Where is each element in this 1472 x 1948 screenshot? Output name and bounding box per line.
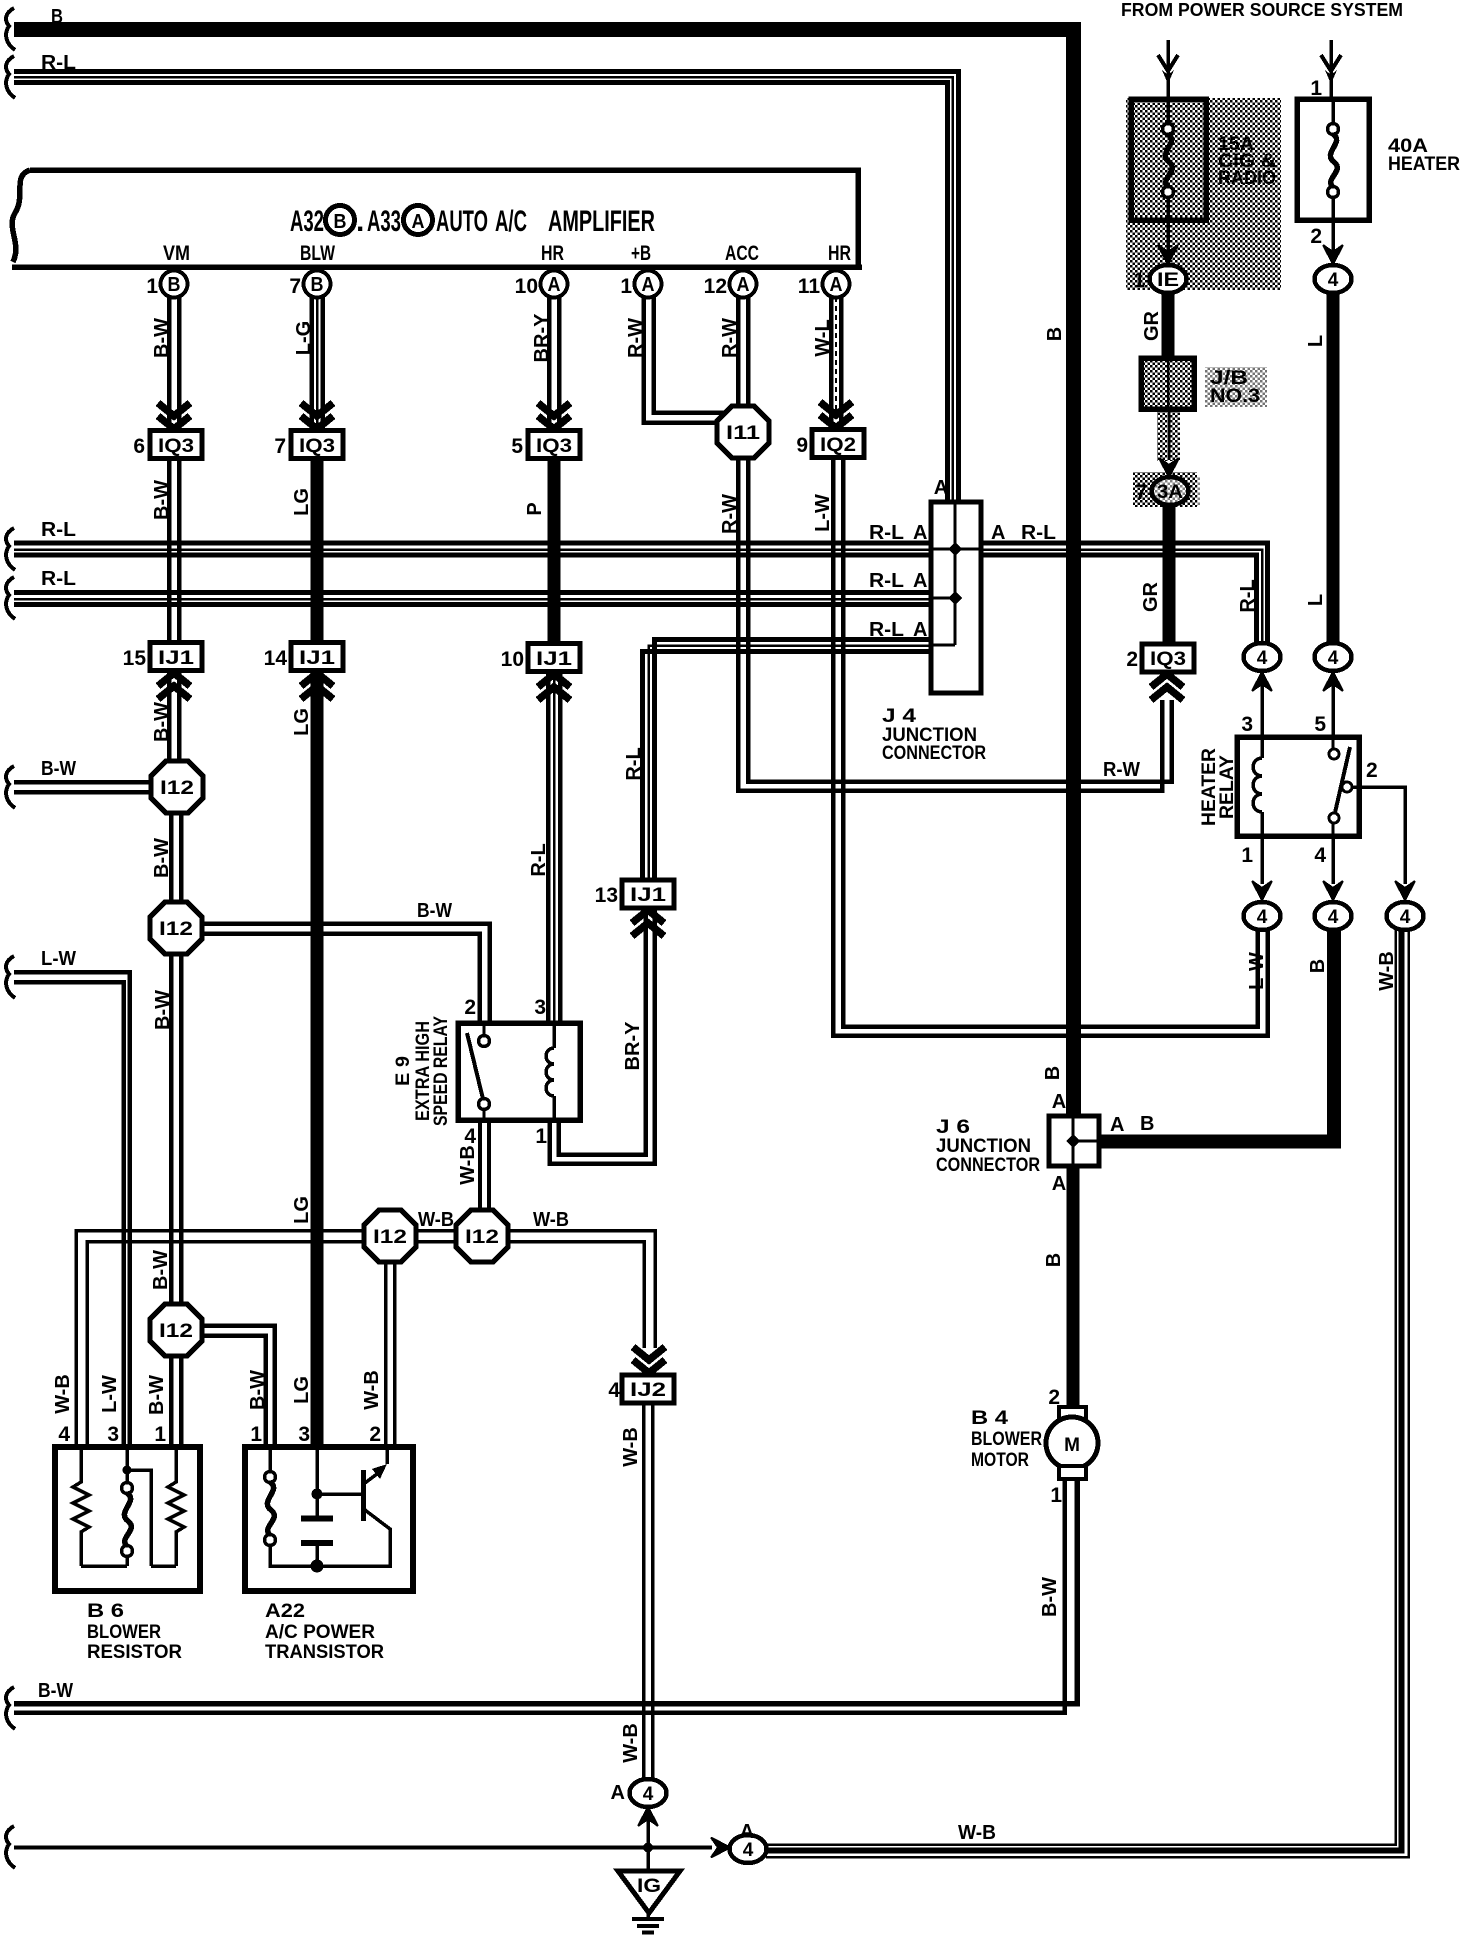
oval connector 4 (heater fuse) xyxy=(1315,265,1352,293)
junction dot at IG tap xyxy=(643,1843,653,1853)
svg-text:1: 1 xyxy=(1241,844,1253,867)
HEATER RELAY box xyxy=(1237,737,1359,836)
connector 6 IQ3 xyxy=(133,431,202,459)
svg-text:3: 3 xyxy=(107,1423,119,1446)
octagon junction I12 (third, on B-W column) xyxy=(150,1304,202,1356)
svg-text:IJ1: IJ1 xyxy=(299,648,336,669)
connector 2 IQ3 xyxy=(1126,644,1194,672)
svg-text:R-L: R-L xyxy=(528,843,550,876)
svg-text:A: A xyxy=(913,522,927,544)
label J 4 JUNCTION CONNECTOR xyxy=(882,705,986,764)
B6 bypass link from pin3 node xyxy=(127,1470,151,1566)
junction block J/B No.3 box xyxy=(1141,358,1194,409)
svg-text:LG: LG xyxy=(291,708,313,736)
J6 junction dot xyxy=(1066,1134,1080,1148)
connector 7 IQ3 xyxy=(274,431,343,459)
label 40A HEATER xyxy=(1388,135,1460,175)
svg-text:4: 4 xyxy=(1328,648,1339,669)
svg-text:B: B xyxy=(334,211,347,233)
svg-text:4: 4 xyxy=(1314,844,1326,867)
svg-text:B: B xyxy=(1044,327,1066,341)
B6 resistor under pin 1 xyxy=(168,1447,184,1566)
svg-text:14: 14 xyxy=(264,647,288,670)
arrow up into 15 IJ1 xyxy=(158,673,190,699)
svg-text:RELAY: RELAY xyxy=(1216,755,1238,819)
brace at left of L-W entry xyxy=(6,956,15,998)
octagon junction I12 (row y1236 left) xyxy=(364,1210,416,1262)
svg-text:A: A xyxy=(740,1821,754,1843)
power feed arrow into 40A heater fuse xyxy=(1321,40,1341,99)
wire B-W from amp pin 1(VM) down to connector 6 IQ3 xyxy=(169,297,179,430)
svg-text:4: 4 xyxy=(743,1840,754,1861)
svg-text:TRANSISTOR: TRANSISTOR xyxy=(265,1641,384,1663)
wire W-B from 4 IJ2 down to bottom oval A 4 xyxy=(644,1403,653,1779)
connector 13 IJ1 xyxy=(595,880,674,908)
octagon junction I12 (first) xyxy=(151,761,203,813)
svg-text:L-W: L-W xyxy=(1246,952,1268,990)
power feed arrow into CIG fuse xyxy=(1158,40,1178,99)
svg-text:IJ1: IJ1 xyxy=(536,649,573,670)
svg-text:B: B xyxy=(1043,1253,1065,1267)
arrow down into heater oval 4 xyxy=(1323,245,1343,264)
svg-text:A: A xyxy=(830,274,843,296)
wire relay pin 4 down xyxy=(1331,836,1335,884)
blower resistor B6 box xyxy=(55,1447,200,1591)
wire R-L row 1 from left brace to J4 xyxy=(14,543,931,555)
arrow up from relay pin3 into oval xyxy=(1252,672,1272,691)
junction connector J6 box xyxy=(1049,1116,1099,1166)
svg-text:1: 1 xyxy=(620,275,632,298)
oval connector 4 (relay pin 2 bottom) xyxy=(1387,902,1424,930)
svg-text:BLW: BLW xyxy=(300,242,335,265)
svg-text:HEATER: HEATER xyxy=(1388,153,1460,175)
svg-text:7: 7 xyxy=(274,435,286,458)
B6 resistor under pin 4 xyxy=(73,1447,89,1566)
bottom single wire from left brace to oval A 4 (right) xyxy=(14,1846,712,1850)
svg-text:R-W: R-W xyxy=(1103,759,1140,781)
E9 switch blade xyxy=(467,1033,483,1099)
svg-text:I11: I11 xyxy=(726,423,761,444)
svg-text:L: L xyxy=(1305,594,1327,606)
wire B-W from second I12 down to third I12 xyxy=(171,954,181,1305)
svg-text:IQ3: IQ3 xyxy=(1150,649,1186,670)
svg-text:4: 4 xyxy=(1328,270,1339,291)
svg-text:R-L: R-L xyxy=(41,52,76,74)
oval connector 4 (relay pin 5 top) xyxy=(1315,643,1352,671)
svg-text:A32: A32 xyxy=(290,205,324,238)
svg-text:10: 10 xyxy=(515,275,538,298)
svg-text:A: A xyxy=(642,274,655,296)
arrow down into 7 IQ3 xyxy=(301,403,333,429)
svg-text:.: . xyxy=(356,205,364,238)
arrow up into 13 IJ1 from below xyxy=(632,910,664,936)
label 15A CIG & RADIO xyxy=(1218,133,1276,189)
svg-text:1: 1 xyxy=(250,1423,262,1446)
svg-text:IJ2: IJ2 xyxy=(630,1380,666,1401)
svg-text:4: 4 xyxy=(643,1784,654,1805)
arrow up into bottom oval A 4 xyxy=(638,1807,658,1826)
wire B-W from 6 IQ3 down to 15 IJ1 xyxy=(169,458,179,642)
svg-text:3: 3 xyxy=(298,1423,310,1446)
svg-text:A: A xyxy=(611,1782,625,1804)
svg-text:6: 6 xyxy=(133,435,145,458)
wire LG solid from 7 IQ3 down to 14 IJ1 xyxy=(311,458,324,642)
svg-text:ACC: ACC xyxy=(725,242,759,265)
svg-text:A: A xyxy=(1052,1173,1066,1195)
wire W-B from E9 pin 4 down to octagon I12 (x482) xyxy=(480,1120,489,1211)
wire R-L row 2 from left brace to J4 xyxy=(14,593,931,605)
svg-text:W-B: W-B xyxy=(958,1822,996,1844)
octagon junction I12 (second) xyxy=(150,902,202,954)
brace at left of R-L row 1 xyxy=(6,528,15,570)
svg-text:1: 1 xyxy=(1050,1484,1062,1507)
svg-text:B-W: B-W xyxy=(151,480,173,520)
heater relay coil xyxy=(1253,737,1262,836)
shaded wire from J/B No.3 down to 7 3A xyxy=(1157,409,1180,461)
E9 switch internal stubs xyxy=(483,1023,486,1120)
svg-text:B-W: B-W xyxy=(38,1680,73,1702)
arrow down into 7 3A xyxy=(1159,458,1179,477)
arrow down into 4 IJ2 xyxy=(633,1347,665,1373)
J4 internal row stubs xyxy=(931,549,981,645)
svg-text:W-B: W-B xyxy=(620,1723,642,1763)
wire GR solid from 7 3A down to 2 IQ3 xyxy=(1163,505,1176,644)
J4 junction dot row2 xyxy=(948,591,962,605)
wire B-W from second I12 right then down to E9 relay pin 2 xyxy=(202,924,490,1024)
svg-text:GR: GR xyxy=(1140,581,1162,612)
svg-text:GR: GR xyxy=(1141,310,1163,341)
svg-text:B: B xyxy=(311,274,324,296)
svg-text:R-L: R-L xyxy=(1237,579,1259,612)
wire W-B link between the two I12 octagons xyxy=(416,1231,456,1242)
E9 switch contact bottom circle xyxy=(479,1099,490,1110)
svg-text:BLOWER: BLOWER xyxy=(87,1621,161,1643)
svg-text:HR: HR xyxy=(828,242,851,265)
svg-text:I12: I12 xyxy=(159,919,193,940)
svg-text:B-W: B-W xyxy=(41,758,76,780)
svg-text:B: B xyxy=(168,274,181,296)
arrow down into pin4 oval xyxy=(1323,881,1343,900)
oval connector 4 (relay pin 4 bottom) xyxy=(1315,902,1352,930)
wire B: main battery feed, top horizontal then down right side to J6 xyxy=(14,30,1074,1117)
svg-text:W-B: W-B xyxy=(52,1374,74,1414)
arrow down into 1 IE xyxy=(1158,245,1178,264)
wire W-L from amp pin 11(HR) down to connector 9 IQ2 (dashed core) xyxy=(831,297,841,428)
svg-text:IE: IE xyxy=(1157,270,1179,291)
svg-text:R-W: R-W xyxy=(719,494,741,534)
A32/A33 AUTO A/C AMPLIFIER box xyxy=(12,170,862,267)
svg-text:1: 1 xyxy=(146,275,158,298)
svg-text:A: A xyxy=(548,274,561,296)
wire L solid from oval down to oval 4 at relay pin 5 xyxy=(1327,293,1340,643)
pin 1 circle B (VM) xyxy=(146,271,187,299)
svg-text:I12: I12 xyxy=(373,1227,407,1248)
brace at left of R-L row 2 xyxy=(6,577,15,619)
wire relay pin 3 xyxy=(1260,676,1264,737)
svg-text:W-B: W-B xyxy=(361,1370,383,1410)
svg-text:5: 5 xyxy=(511,435,523,458)
wire B-W bottom horizontal from left brace to blower motor pin 1 xyxy=(14,1481,1077,1713)
wire B solid from pin4 oval down then left into J6 xyxy=(1099,930,1334,1142)
connector 14 IJ1 xyxy=(264,643,343,671)
wire R-L: second horizontal from left, turns down at x955 into J4 pin A xyxy=(14,72,959,503)
svg-text:4: 4 xyxy=(58,1423,70,1446)
wire W-B from pin2 oval down then left along bottom to oval A 4 xyxy=(766,930,1409,1857)
blower motor B4 xyxy=(1046,1407,1098,1479)
svg-text:A: A xyxy=(737,274,750,296)
svg-text:B: B xyxy=(1140,1113,1154,1135)
A22 base node and capacitor xyxy=(301,1447,361,1573)
octagon junction I11 xyxy=(717,406,769,458)
wire B-W entering from left brace into first I12 xyxy=(14,782,151,792)
svg-text:B: B xyxy=(1307,959,1329,973)
halftone patch behind 7 3A oval xyxy=(1133,472,1197,507)
J4 junction dot row1 xyxy=(948,542,962,556)
label B 6 BLOWER RESISTOR xyxy=(87,1600,182,1663)
oval connector 4 (relay pin 1 bottom) xyxy=(1244,902,1281,930)
svg-text:3: 3 xyxy=(1241,713,1253,736)
svg-text:B-W: B-W xyxy=(150,1250,172,1290)
wire B-W from 15 IJ1 down to octagon I12 (first) xyxy=(169,673,179,762)
svg-text:A22: A22 xyxy=(265,1600,305,1622)
svg-text:RESISTOR: RESISTOR xyxy=(87,1641,182,1663)
A22 thermal element under pin 1 xyxy=(265,1447,318,1566)
svg-text:7: 7 xyxy=(289,275,301,298)
wire R-L row3 from 13 IJ1 up then right to J4 xyxy=(643,640,932,881)
label A22 A/C POWER TRANSISTOR xyxy=(265,1600,384,1663)
arrow up from relay pin5 into oval xyxy=(1323,672,1343,691)
svg-text:1: 1 xyxy=(154,1423,166,1446)
svg-text:4: 4 xyxy=(464,1125,476,1148)
svg-text:5: 5 xyxy=(1314,713,1326,736)
svg-text:B: B xyxy=(51,6,63,28)
svg-text:A/C: A/C xyxy=(495,205,527,238)
svg-text:R-L: R-L xyxy=(869,522,904,544)
brace at left of bottom wire xyxy=(6,1826,15,1868)
pin 12 circle A (ACC) xyxy=(704,271,757,299)
svg-text:B 4: B 4 xyxy=(971,1407,1008,1429)
svg-text:LG: LG xyxy=(291,1376,313,1404)
svg-text:4: 4 xyxy=(1328,907,1339,928)
svg-text:A: A xyxy=(934,477,948,499)
svg-text:R-W: R-W xyxy=(625,318,647,358)
B6 bottom links xyxy=(81,1564,176,1568)
A22 transistor emitter arrowhead xyxy=(372,1464,387,1479)
svg-text:MOTOR: MOTOR xyxy=(971,1449,1029,1471)
svg-text:BLOWER: BLOWER xyxy=(971,1428,1042,1450)
wire L-W from 9 IQ2 down then right and up to heater relay pin1 oval xyxy=(833,457,1268,1036)
A/C power transistor A22 box xyxy=(245,1447,413,1591)
svg-text:A: A xyxy=(1110,1114,1124,1136)
connector 5 IQ3 xyxy=(511,431,580,459)
svg-text:2: 2 xyxy=(1126,648,1138,671)
svg-text:B-W: B-W xyxy=(1039,1577,1061,1617)
wire B-W from third I12 down to B6 pin 1 xyxy=(171,1356,181,1446)
wire BR-Y from E9 relay pin1 down, right and up into 13 IJ1 xyxy=(550,910,655,1164)
svg-text:B-W: B-W xyxy=(417,900,452,922)
arrow up into 2 IQ3 xyxy=(1151,674,1183,700)
svg-text:IQ3: IQ3 xyxy=(158,436,194,457)
E9 switch contact top circle xyxy=(479,1036,490,1047)
svg-text:W-B: W-B xyxy=(533,1209,569,1231)
E9 coil xyxy=(546,1023,554,1120)
svg-text:A: A xyxy=(913,570,927,592)
B6 thermal element under pin 3 xyxy=(122,1447,133,1566)
oval connector A 4 (above IG ground) xyxy=(611,1779,667,1807)
octagon junction I12 (row y1236 right) xyxy=(456,1210,508,1262)
ground IG triangle xyxy=(618,1871,680,1913)
wire from CIG fuse to connector 1 IE xyxy=(1166,220,1170,252)
svg-text:BR-Y: BR-Y xyxy=(622,1021,644,1071)
svg-text:SPEED RELAY: SPEED RELAY xyxy=(430,1016,452,1126)
svg-text:I12: I12 xyxy=(465,1227,499,1248)
svg-text:12: 12 xyxy=(704,275,727,298)
wire W-B from right I12 octagon right then down to 4 IJ2 xyxy=(508,1231,655,1349)
brace at left of bottom B-W xyxy=(6,1687,15,1729)
svg-text:R-L: R-L xyxy=(41,519,76,541)
wire B-W from first I12 down to second I12 xyxy=(171,813,181,903)
svg-text:10: 10 xyxy=(501,648,524,671)
wire BR-Y from amp pin 10(HR) down to connector 5 IQ3 xyxy=(549,297,559,430)
brace at left end of wire B xyxy=(6,8,15,50)
wire W-B from B6 pin4 up and right to octagon I12 (x390) xyxy=(76,1231,364,1447)
pin 11 circle A (HR) xyxy=(798,271,850,299)
svg-text:W-B: W-B xyxy=(457,1145,479,1185)
wire LG solid from 14 IJ1 down to A22 pin 3 xyxy=(311,673,324,1446)
oval connector 1 IE xyxy=(1133,265,1186,293)
svg-text:A: A xyxy=(412,211,425,233)
svg-text:2: 2 xyxy=(369,1423,381,1446)
svg-text:L-W: L-W xyxy=(41,948,76,970)
svg-text:4: 4 xyxy=(1257,648,1268,669)
label J 6 JUNCTION CONNECTOR xyxy=(936,1116,1040,1176)
svg-text:I12: I12 xyxy=(160,778,194,799)
A22 transistor xyxy=(317,1447,390,1566)
brace at left of B-W entry xyxy=(6,766,15,808)
connector 9 IQ2 xyxy=(796,430,864,458)
svg-text:RADIO: RADIO xyxy=(1218,167,1276,189)
svg-text:FROM POWER SOURCE SYSTEM: FROM POWER SOURCE SYSTEM xyxy=(1121,0,1403,20)
wire B-W from third I12 right then down to A22 pin 1 xyxy=(202,1326,275,1447)
svg-text:IJ1: IJ1 xyxy=(158,648,195,669)
svg-text:W-L: W-L xyxy=(812,319,834,356)
arrow down into pin1 oval xyxy=(1252,881,1272,900)
svg-text:2: 2 xyxy=(1310,225,1322,248)
svg-text:E 9: E 9 xyxy=(392,1056,414,1086)
svg-text:R-L: R-L xyxy=(623,747,645,780)
svg-text:W-B: W-B xyxy=(418,1209,454,1231)
svg-text:4: 4 xyxy=(1257,907,1268,928)
wire relay pin 5 xyxy=(1331,676,1335,737)
heater relay pin2 contact xyxy=(1342,782,1352,792)
svg-text:AUTO: AUTO xyxy=(436,205,488,238)
svg-text:L-W: L-W xyxy=(812,494,834,532)
oval connector 7 3A xyxy=(1135,477,1200,506)
pin 7 circle B (BLW) xyxy=(289,271,330,299)
svg-text:IQ3: IQ3 xyxy=(536,436,572,457)
pin 1 circle A (+B) xyxy=(620,271,661,299)
label J/B NO.3 xyxy=(1205,367,1267,407)
svg-text:B: B xyxy=(1042,1066,1064,1080)
svg-text:1: 1 xyxy=(535,1125,547,1148)
pin 10 circle A (HR) xyxy=(515,271,568,299)
circled A in title xyxy=(404,206,433,235)
label B 4 BLOWER MOTOR xyxy=(971,1407,1042,1471)
svg-text:B-W: B-W xyxy=(146,1375,168,1415)
arrow down into 5 IQ3 xyxy=(538,403,570,429)
halftone shade behind CIG fuse area xyxy=(1126,98,1281,290)
svg-text:IG: IG xyxy=(637,1876,661,1897)
svg-text:AMPLIFIER: AMPLIFIER xyxy=(548,205,655,238)
connector 4 IJ2 xyxy=(608,1375,674,1403)
arrow right into bottom-right oval A 4 xyxy=(711,1838,730,1858)
svg-text:L-W: L-W xyxy=(99,1375,121,1413)
arrow up into 14 IJ1 xyxy=(301,673,333,699)
svg-text:IQ2: IQ2 xyxy=(820,435,856,456)
svg-text:3: 3 xyxy=(534,996,546,1019)
wire P solid from 5 IQ3 down to 10 IJ1 xyxy=(548,458,561,642)
label E 9 EXTRA HIGH SPEED RELAY (rotated) xyxy=(392,1016,452,1126)
connector 15 IJ1 xyxy=(123,643,202,671)
wire R-L from 10 IJ1 down to E9 relay pin 3 xyxy=(548,674,560,1023)
arrow down into 9 IQ2 xyxy=(820,402,852,428)
wire B solid from J6 down to blower motor pin 2 xyxy=(1067,1166,1080,1407)
svg-text:M: M xyxy=(1064,1435,1080,1456)
svg-text:A: A xyxy=(1052,1091,1066,1113)
svg-text:LG: LG xyxy=(291,488,313,516)
wire R-W from amp pin 1(+B) down then right to octagon I11 xyxy=(644,297,729,423)
svg-text:B-W: B-W xyxy=(247,1370,269,1410)
heater relay switch top contact xyxy=(1329,749,1339,759)
svg-text:13: 13 xyxy=(595,884,618,907)
svg-text:2: 2 xyxy=(464,996,476,1019)
svg-text:R-L: R-L xyxy=(41,568,76,590)
heater relay switch bottom contact xyxy=(1329,813,1339,823)
svg-text:A/C POWER: A/C POWER xyxy=(265,1621,375,1643)
svg-text:A33: A33 xyxy=(367,205,401,238)
svg-text:L-G: L-G xyxy=(293,321,315,355)
svg-text:4: 4 xyxy=(1400,907,1411,928)
svg-text:B-W: B-W xyxy=(151,702,173,742)
svg-text:11: 11 xyxy=(798,275,821,298)
heater relay switch internal stubs xyxy=(1332,737,1335,836)
svg-text:B 6: B 6 xyxy=(87,1600,124,1622)
svg-text:HR: HR xyxy=(541,242,564,265)
wire relay pin 2 to the right and down xyxy=(1352,787,1405,884)
relay E9 EXTRA HIGH SPEED RELAY box xyxy=(458,1023,580,1120)
heater relay switch blade xyxy=(1334,747,1350,817)
svg-text:CONNECTOR: CONNECTOR xyxy=(936,1154,1040,1176)
svg-text:B-W: B-W xyxy=(151,318,173,358)
connector 10 IJ1 xyxy=(501,644,580,672)
wire from heater fuse to oval 4 xyxy=(1331,220,1335,252)
wire L-G from amp pin 7(BLW) down to connector 7 IQ3 xyxy=(312,297,323,430)
brace at left end of wire R-L xyxy=(6,56,15,98)
wire L-W entering from left brace, turns down to B6 pin 3 xyxy=(14,972,130,1446)
svg-text:9: 9 xyxy=(796,434,808,457)
svg-text:2: 2 xyxy=(1366,759,1378,782)
fuse 15A CIG & RADIO box xyxy=(1131,99,1206,220)
svg-text:B-W: B-W xyxy=(151,838,173,878)
arrow down into 6 IQ3 xyxy=(158,403,190,429)
svg-text:CONNECTOR: CONNECTOR xyxy=(882,742,986,764)
svg-text:15: 15 xyxy=(123,647,147,670)
wire R-W from amp pin 12(ACC) down to octagon I11 xyxy=(738,297,748,407)
svg-text:+B: +B xyxy=(631,242,651,265)
arrow up into 10 IJ1 xyxy=(538,674,570,700)
svg-text:I12: I12 xyxy=(159,1321,193,1342)
junction connector J4 box xyxy=(931,502,981,693)
